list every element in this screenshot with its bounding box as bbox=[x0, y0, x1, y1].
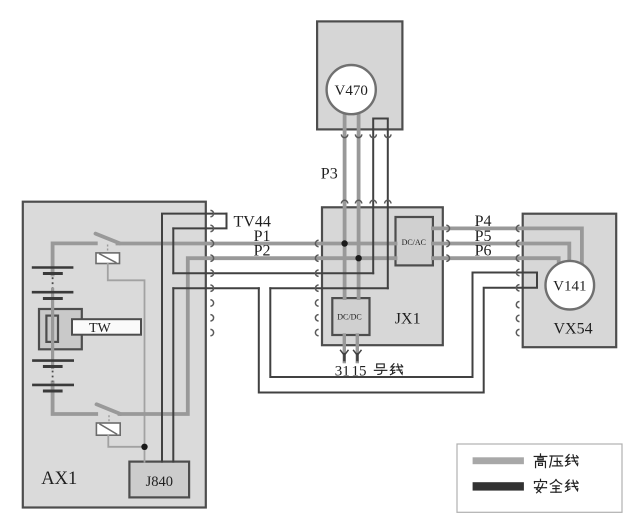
wire bottom loop inner bbox=[270, 273, 521, 378]
wire jumper loop inside VX54 bbox=[523, 273, 537, 288]
wire terminal 15 stub bbox=[356, 335, 359, 362]
connector pins JX1 top edge bbox=[341, 200, 391, 203]
wire battery top riser bbox=[53, 243, 96, 274]
wire dashed cell link 1 bbox=[52, 277, 54, 288]
wire row6 segment to JX1 bbox=[270, 287, 388, 289]
battery cell plates pair 3 bbox=[33, 359, 72, 362]
svg-text:AX1: AX1 bbox=[41, 469, 77, 489]
inverter DC/AC bbox=[396, 217, 433, 265]
junction node P2/DC-DC bbox=[355, 255, 361, 261]
svg-text:V470: V470 bbox=[335, 83, 368, 99]
svg-text:TW: TW bbox=[89, 321, 112, 336]
svg-text:15: 15 bbox=[352, 364, 367, 380]
junction node P1/DC-DC bbox=[341, 240, 347, 246]
svg-text:VX54: VX54 bbox=[554, 321, 593, 338]
connector pins JX1 right edge bbox=[446, 225, 449, 261]
wire P3 high-voltage pair bbox=[343, 105, 347, 298]
svg-text:V141: V141 bbox=[553, 278, 586, 294]
fuse box TW bbox=[39, 309, 82, 349]
battery box AX1 bbox=[23, 202, 206, 508]
legend safety swatch bbox=[473, 482, 524, 490]
wire P6 high-voltage bbox=[433, 258, 559, 267]
junction node relay coils bbox=[141, 444, 147, 450]
motor circle V141 bbox=[546, 261, 595, 310]
compressor box V470 bbox=[317, 21, 402, 129]
wire P4 high-voltage bbox=[433, 228, 582, 267]
motor circle V470 bbox=[327, 65, 376, 114]
wire bottom loop outer bbox=[259, 288, 522, 393]
svg-text:JX1: JX1 bbox=[395, 311, 421, 328]
connector pins VX54 left edge bbox=[516, 225, 519, 336]
wire battery bottom riser bbox=[53, 383, 97, 415]
wire jumper loop inside V470 bbox=[373, 119, 388, 130]
wire battery string through fuse bbox=[51, 290, 54, 368]
wire row6 down to J840 bbox=[172, 288, 174, 461]
converter DC/DC bbox=[332, 298, 369, 335]
svg-text:DC/DC: DC/DC bbox=[337, 313, 361, 322]
battery cell plates top pair 1 bbox=[33, 266, 72, 269]
wire row6 segment to AX1 bbox=[173, 287, 258, 289]
wire TV44 pin2 down to row5 bbox=[172, 228, 174, 273]
wire dashed cell link 2 bbox=[52, 371, 54, 382]
power electronics box JX1 bbox=[322, 207, 443, 345]
linkage S2 (dashed) bbox=[108, 415, 110, 422]
svg-text:J840: J840 bbox=[146, 474, 173, 490]
svg-text:P6: P6 bbox=[475, 243, 492, 260]
relay coil K1 bbox=[96, 253, 120, 264]
label tag TW bbox=[72, 319, 141, 335]
legend high-voltage swatch bbox=[473, 457, 524, 464]
svg-text:31: 31 bbox=[335, 364, 350, 380]
relay coil K2 bbox=[96, 423, 120, 435]
connector pins V470 bottom edge bbox=[341, 134, 391, 137]
svg-text:P2: P2 bbox=[254, 243, 271, 260]
linkage S1 (dashed) bbox=[107, 245, 109, 253]
wire TV44 loop bbox=[173, 214, 226, 229]
climate box VX54 bbox=[523, 214, 617, 348]
wire P5 high-voltage bbox=[433, 244, 569, 264]
wire row5 safety line to JX1 bbox=[173, 272, 373, 274]
control unit J840 bbox=[129, 462, 189, 498]
legend box bbox=[457, 444, 622, 512]
connector pins JX1 left edge bbox=[315, 240, 318, 335]
wire interlock from J840 to TV44 pin1 bbox=[162, 214, 227, 462]
connector pins AX1 right edge bbox=[210, 210, 213, 335]
arrowhead terminal 15 bbox=[353, 350, 361, 356]
arrowhead terminal 31 bbox=[340, 350, 348, 356]
wire interlock riser to V470 bbox=[372, 129, 374, 273]
svg-text:DC/AC: DC/AC bbox=[402, 238, 426, 247]
wire P1 high-voltage bbox=[118, 242, 396, 246]
battery cell plates pair 2 bbox=[33, 291, 72, 294]
wire interlock return from V470 bbox=[387, 129, 389, 288]
battery cell plates pair 4 bbox=[33, 384, 72, 387]
contactor switch arm S2 bbox=[97, 404, 121, 414]
wire P2 high-voltage bbox=[120, 258, 396, 414]
wire coil K2 output bbox=[108, 435, 144, 447]
contactor switch arm S1 bbox=[96, 234, 120, 244]
wire coil K1 output bbox=[108, 264, 145, 462]
svg-text:P3: P3 bbox=[321, 166, 338, 183]
wire terminal 31 stub bbox=[343, 335, 346, 362]
